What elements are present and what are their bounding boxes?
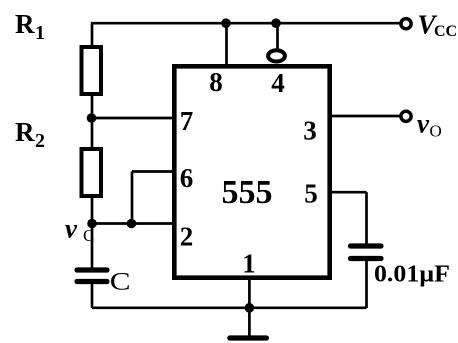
wire 0.01uF cap top lead <box>365 192 368 246</box>
svg-text:1: 1 <box>242 249 256 279</box>
capacitor 0.01uF bottom plate <box>351 256 382 261</box>
wire 0.01uF cap bottom lead <box>365 261 368 308</box>
svg-text:5: 5 <box>304 179 318 209</box>
wire pin 8 <box>225 23 228 66</box>
wire pin 5 <box>330 191 367 194</box>
svg-text:1: 1 <box>35 22 45 44</box>
pin 4 reset bubble <box>268 50 285 61</box>
wire pin 3 <box>330 115 401 118</box>
svg-text:v: v <box>65 214 78 244</box>
wire pin 7 <box>92 117 175 120</box>
svg-text:3: 3 <box>303 116 317 146</box>
wire pin 6 vertical branch <box>131 172 134 224</box>
terminal Vcc open circle <box>401 19 411 29</box>
svg-text:O: O <box>430 121 442 140</box>
ground stub wire <box>248 308 251 337</box>
svg-text:v: v <box>417 109 430 139</box>
terminal vO open circle <box>401 111 411 121</box>
node junction dot pin8 rail <box>221 18 231 28</box>
wire top rail from R1 to Vcc terminal <box>91 22 400 25</box>
wire pin 2 <box>92 222 174 225</box>
wire R1 bottom to R2 top <box>91 94 94 149</box>
svg-text:R: R <box>15 9 35 39</box>
node junction dot ground node <box>245 303 255 313</box>
svg-text:555: 555 <box>222 174 273 211</box>
wire pin 6 horizontal <box>132 170 174 173</box>
svg-text:2: 2 <box>35 130 45 152</box>
wire bottom rail <box>92 306 367 309</box>
capacitor C top plate <box>77 267 107 272</box>
node junction dot pin4 rail <box>271 18 281 28</box>
svg-text:CC: CC <box>434 23 457 40</box>
node junction dot at pin7 <box>87 113 97 123</box>
svg-text:7: 7 <box>180 106 194 136</box>
capacitor 0.01uF top plate <box>351 243 382 248</box>
svg-text:C: C <box>110 269 131 296</box>
ground bar <box>230 335 267 340</box>
wire C bottom lead <box>91 284 94 308</box>
resistor R1 <box>82 47 102 94</box>
svg-text:2: 2 <box>180 222 194 252</box>
wire R2 bottom to capacitor C <box>91 196 94 268</box>
svg-text:C: C <box>83 226 94 245</box>
wire pin 4 <box>276 23 279 49</box>
svg-text:R: R <box>15 117 35 147</box>
svg-text:8: 8 <box>209 67 223 97</box>
op-amp U1 555 IC body <box>174 66 329 277</box>
capacitor C bottom plate <box>77 279 107 284</box>
node junction dot vC <box>87 219 97 229</box>
wire R1 top lead <box>91 23 94 47</box>
resistor R2 <box>82 149 102 196</box>
svg-text:4: 4 <box>271 68 285 98</box>
svg-text:6: 6 <box>180 163 194 193</box>
node junction dot on pin2 wire <box>127 219 137 229</box>
wire pin 1 <box>248 280 251 308</box>
svg-text:0.01µF: 0.01µF <box>374 262 450 288</box>
